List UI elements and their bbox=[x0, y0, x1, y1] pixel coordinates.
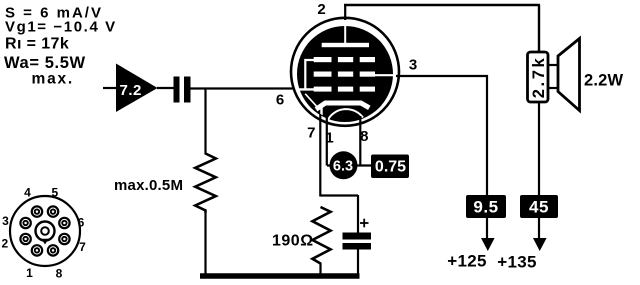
svg-text:Vg1= −10.4 V: Vg1= −10.4 V bbox=[5, 19, 117, 36]
svg-text:Rı = 17k: Rı = 17k bbox=[5, 36, 69, 53]
svg-text:7: 7 bbox=[79, 240, 86, 254]
svg-text:3: 3 bbox=[409, 57, 417, 74]
svg-text:6: 6 bbox=[276, 92, 284, 109]
svg-text:2: 2 bbox=[1, 237, 8, 251]
svg-text:4: 4 bbox=[24, 186, 31, 200]
svg-text:6.3: 6.3 bbox=[333, 159, 353, 175]
svg-text:Wa= 5.5W: Wa= 5.5W bbox=[4, 54, 86, 72]
svg-text:1: 1 bbox=[26, 266, 33, 280]
svg-text:2: 2 bbox=[317, 1, 325, 18]
svg-text:2.7k: 2.7k bbox=[530, 56, 548, 99]
svg-text:8: 8 bbox=[56, 267, 63, 281]
svg-text:7.2: 7.2 bbox=[120, 82, 142, 99]
svg-text:0.75: 0.75 bbox=[375, 159, 406, 176]
svg-text:max.0.5M: max.0.5M bbox=[114, 177, 183, 194]
svg-text:2.2W: 2.2W bbox=[584, 72, 624, 90]
svg-text:+135: +135 bbox=[497, 253, 537, 272]
svg-text:7: 7 bbox=[307, 125, 315, 142]
svg-text:45: 45 bbox=[529, 198, 549, 217]
svg-text:3: 3 bbox=[2, 214, 9, 228]
svg-text:190Ω: 190Ω bbox=[272, 233, 314, 250]
svg-text:+125: +125 bbox=[447, 252, 487, 271]
svg-text:6: 6 bbox=[78, 216, 85, 230]
svg-text:5: 5 bbox=[51, 186, 58, 200]
svg-text:max.: max. bbox=[32, 71, 75, 88]
svg-text:9.5: 9.5 bbox=[473, 198, 498, 217]
